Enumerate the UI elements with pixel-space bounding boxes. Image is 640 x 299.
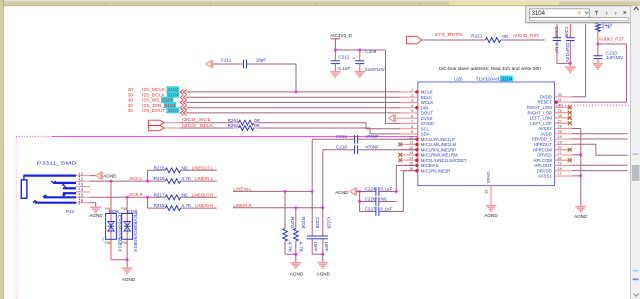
pin 31 RESET <box>555 101 573 103</box>
ground jack pin6 <box>90 207 101 213</box>
wire rail down to IOVDD pin7 <box>385 50 387 123</box>
svg-text:C224: C224 <box>365 186 376 191</box>
svg-text:DOUT: DOUT <box>421 111 434 116</box>
capacitor C224 plates <box>376 187 379 196</box>
wire ED bottoms join <box>111 259 127 261</box>
jack pin 3 stub <box>76 186 90 188</box>
pin 27 LEFT_LOP <box>555 122 573 124</box>
wire LINEIN-L to C216 <box>311 139 313 191</box>
wire LINEIN-R right segment <box>233 207 323 209</box>
svg-text:AGND: AGND <box>484 213 498 218</box>
svg-text:FW: FW <box>105 207 111 211</box>
search highlight on I2S_BCLK_3104 <box>167 92 179 98</box>
svg-text:NC: NC <box>182 165 189 170</box>
pin 24 DRVDD_1 <box>555 138 573 140</box>
svg-text:1uF/10V: 1uF/10V <box>606 55 624 60</box>
wire C211 to MCLK <box>247 63 297 65</box>
svg-text:470NF: 470NF <box>365 134 379 139</box>
svg-text:I2C0_SCL: I2C0_SCL <box>182 117 212 122</box>
off-page connector chevron I2S_WS_3104 <box>180 100 186 105</box>
svg-text:MICBIAS: MICBIAS <box>421 163 439 168</box>
junction C216/C228 <box>311 190 314 193</box>
wire DVDD pin32 <box>572 96 586 98</box>
wire LINEIN-R to C218 <box>322 150 324 208</box>
svg-text:›: › <box>615 10 617 17</box>
junction R218 branch <box>146 196 149 199</box>
svg-text:MIC2R/LINE2R: MIC2R/LINE2R <box>421 168 451 173</box>
wire SYS_RSTN <box>422 39 486 41</box>
pin 3 WCLK <box>400 101 418 103</box>
ground under C210 <box>593 64 604 70</box>
pin 4 DIN <box>400 107 418 109</box>
capacitor C212 <box>334 50 336 61</box>
capacitor C208 <box>569 24 571 38</box>
resistor R221 <box>485 38 500 43</box>
svg-text:9: 9 <box>411 130 413 134</box>
wire LINEIN-L right segment <box>233 190 312 192</box>
svg-text:SYS_RSTN: SYS_RSTN <box>435 32 462 37</box>
svg-text:17: 17 <box>558 172 562 176</box>
no-connect X pin 29 <box>555 112 568 114</box>
wire AUDIO_RST left segment <box>501 39 545 41</box>
svg-text:HPRCOM: HPRCOM <box>533 147 553 152</box>
pin 9 SDA <box>400 133 418 135</box>
svg-text:+: + <box>353 56 356 61</box>
svg-text:470NF: 470NF <box>365 145 379 150</box>
svg-text:LINEOUT-L: LINEOUT-L <box>192 165 214 170</box>
svg-text:AGND: AGND <box>574 214 588 219</box>
wire left rail C224-C227 <box>356 191 359 193</box>
capacitor C210 plates <box>593 56 602 59</box>
wire power rail <box>335 49 385 51</box>
wire R218 branch <box>147 197 149 208</box>
svg-text:TEVB3R0V6SB1X: TEVB3R0V6SB1X <box>133 212 138 252</box>
svg-text:I2S_MCLK_3104: I2S_MCLK_3104 <box>142 87 179 92</box>
svg-text:4.7K: 4.7K <box>602 24 612 29</box>
svg-text:6: 6 <box>411 114 413 118</box>
wire JACK-L <box>90 180 165 182</box>
svg-text:DRVDD_1: DRVDD_1 <box>532 137 553 142</box>
wire AVSS1 pin17 <box>572 175 581 177</box>
ground under C209 <box>354 72 365 78</box>
search highlight on I2S_DOUT_3104 <box>167 107 179 113</box>
pin 22 HPRCOM <box>555 149 573 151</box>
capacitor C207 <box>556 24 558 38</box>
svg-text:R216: R216 <box>154 176 165 181</box>
svg-text:8: 8 <box>411 125 413 129</box>
search highlight on I2S_DIN_3104 <box>164 102 176 108</box>
svg-text:C208: C208 <box>564 27 569 38</box>
svg-text:HPLOUT: HPLOUT <box>534 163 552 168</box>
wire MICBIAS pin15 <box>395 165 397 191</box>
no-connect X pin 11 <box>398 142 402 146</box>
svg-text:4.7K: 4.7K <box>298 242 303 254</box>
wire MIC2R pin16 <box>402 171 404 212</box>
pin 15 MICBIAS <box>400 164 418 166</box>
junction ED6 <box>126 196 129 199</box>
svg-text:AVDD: AVDD <box>540 131 552 136</box>
AGND arrow at C224 <box>350 188 357 196</box>
svg-text:AGND: AGND <box>103 174 117 179</box>
wire SCL <box>180 122 233 124</box>
pin 28 LEFT_LOM <box>555 117 573 119</box>
svg-text:24: 24 <box>558 135 562 139</box>
capacitor C216 <box>355 135 358 144</box>
svg-text:I2C-bus slave address: read 31: I2C-bus slave address: read 31h and writ… <box>439 66 541 71</box>
svg-text:TEVB3R0V6SB1X: TEVB3R0V6SB1X <box>117 212 122 252</box>
capacitor C212 plates <box>331 61 340 64</box>
svg-text:R261: R261 <box>228 118 239 123</box>
junction ED gnd <box>126 258 129 261</box>
capacitor C209 <box>359 50 361 61</box>
wire I2S line I2S_MCLK_3104 <box>186 91 400 93</box>
svg-text:C209: C209 <box>365 49 376 54</box>
wire AVSS2 pin26 to ground rail <box>572 128 581 130</box>
capacitor C218 <box>355 145 358 154</box>
svg-text:18pF: 18pF <box>256 58 267 63</box>
svg-text:R204: R204 <box>301 217 306 229</box>
svg-text:11: 11 <box>409 141 413 145</box>
wire AUDIO_RST to RESET pin31 <box>598 43 627 45</box>
pin 18 DRVDD <box>555 170 573 172</box>
svg-text:LINEIN-R: LINEIN-R <box>233 203 252 208</box>
svg-text:1: 1 <box>411 88 413 92</box>
top bar thumb <box>449 1 559 5</box>
no-connect X pin 14 <box>398 158 402 162</box>
svg-text:AGND: AGND <box>290 272 304 277</box>
svg-text:×: × <box>623 10 627 17</box>
svg-text:DRVDD: DRVDD <box>537 168 552 173</box>
wire AVDD pin25 <box>572 133 628 135</box>
pin 11 MIC1LM/LINE1LM <box>400 143 418 145</box>
pin 16 MIC2R/LINE2R <box>400 170 418 172</box>
pin 14 MIC2L/LINE2L/MICDET <box>400 159 418 161</box>
svg-text:PJ2: PJ2 <box>66 209 74 214</box>
ground ED5 ED6 <box>122 268 133 274</box>
capacitor C211 <box>244 60 247 69</box>
svg-text:AGND: AGND <box>317 272 331 277</box>
svg-text:C212: C212 <box>338 54 349 59</box>
right scrollbar <box>629 6 632 299</box>
pin 6 DVSS <box>400 117 418 119</box>
svg-text:30: 30 <box>128 108 134 113</box>
svg-text:JACK-L: JACK-L <box>129 176 143 181</box>
svg-text:LINEIN-L: LINEIN-L <box>233 187 252 192</box>
svg-text:LEFT_LOP: LEFT_LOP <box>530 121 552 126</box>
wire DRVDD pin18 <box>572 170 628 172</box>
jack pin 6 stub <box>76 202 90 204</box>
svg-text:15PF: 15PF <box>313 242 318 252</box>
junction on MCLK <box>295 91 298 94</box>
capacitor C229 plates <box>318 236 328 239</box>
resistor R261 <box>239 120 254 125</box>
svg-text:R221: R221 <box>471 34 482 39</box>
scrollbar search marks <box>633 153 639 155</box>
svg-text:R203: R203 <box>290 217 295 229</box>
search highlight on I2S_MCLK_3104 <box>167 86 179 92</box>
svg-text:AVSS1: AVSS1 <box>538 174 552 179</box>
svg-text:×: × <box>578 10 582 17</box>
svg-text:3: 3 <box>411 99 413 103</box>
svg-text:LEFT_LOM: LEFT_LOM <box>530 116 553 121</box>
jack pin 1 stub <box>76 175 90 177</box>
ground under C212 <box>330 72 341 78</box>
svg-text:26: 26 <box>558 125 562 129</box>
AGND arrow at C211 <box>206 60 213 68</box>
wire HPROUT pin23 <box>572 143 596 145</box>
svg-text:25: 25 <box>558 130 562 134</box>
pin 7 IOVDD <box>400 122 418 124</box>
capacitor C226 <box>360 201 376 203</box>
svg-text:IOVDD: IOVDD <box>421 121 435 126</box>
pin 10 MIC1LP/LINE1LP <box>400 138 418 140</box>
pin 8 SCL <box>400 128 418 130</box>
svg-text:I2S_WS_3104: I2S_WS_3104 <box>142 98 173 103</box>
svg-text:SDA: SDA <box>421 132 430 137</box>
pin 19 HPLOUT <box>555 165 573 167</box>
capacitor C227 plates <box>376 207 379 216</box>
svg-text:NC: NC <box>381 196 388 201</box>
svg-text:R218: R218 <box>154 203 165 208</box>
capacitor C209 plates <box>355 61 364 64</box>
off-page connector chevron I2S_MCLK_3104 <box>180 90 186 95</box>
wire jack pin6 to ground <box>90 202 96 204</box>
resistor R217 <box>165 195 180 200</box>
svg-text:C218: C218 <box>336 145 347 150</box>
pin 23 HPROUT <box>555 143 573 145</box>
wire HPLOUT pin19 <box>572 164 628 166</box>
svg-text:C228: C228 <box>315 217 320 229</box>
no-connect X pin 30 <box>555 106 568 108</box>
port SYS_RSTN <box>407 36 422 44</box>
junction DRVSS <box>579 153 582 156</box>
svg-text:MCLK: MCLK <box>421 90 433 95</box>
junction C gnd <box>321 253 324 256</box>
pin 29 RIGHT_LOP <box>555 112 573 114</box>
jack pin 4 stub <box>76 191 90 193</box>
pin 33 EPAD <box>490 186 492 205</box>
svg-text:EPAD: EPAD <box>486 172 491 183</box>
svg-text:R215: R215 <box>154 165 165 170</box>
junction R gnd <box>294 253 297 256</box>
wire R203 R204 gnd <box>285 253 296 255</box>
svg-text:15PF: 15PF <box>324 242 329 252</box>
svg-text:33: 33 <box>485 190 489 194</box>
svg-text:AIC3V3_D: AIC3V3_D <box>330 33 352 38</box>
svg-text:C211: C211 <box>221 58 232 63</box>
resistor R203 <box>284 191 286 228</box>
magenta region boundary top edge <box>16 136 52 138</box>
svg-text:JACK-R: JACK-R <box>129 192 143 197</box>
svg-text:NC: NC <box>182 192 189 197</box>
junction R203 <box>284 190 287 193</box>
no-connect X pin 22 <box>555 149 568 151</box>
svg-text:C207: C207 <box>554 27 559 38</box>
pin 13 MIC1RM/LINE1RM <box>400 154 418 156</box>
TVS diode ED5 <box>106 214 117 240</box>
svg-text:22uF/10V: 22uF/10V <box>565 43 570 64</box>
no-connect X pin 20 <box>555 159 568 161</box>
capacitor C228 <box>311 191 313 236</box>
svg-text:23: 23 <box>558 141 562 145</box>
svg-text:HPLCOM: HPLCOM <box>533 158 552 163</box>
resistor R203 zigzag <box>283 229 288 242</box>
svg-text:AGND: AGND <box>335 190 349 195</box>
svg-text:FW: FW <box>121 207 127 211</box>
wire ED5 lead <box>110 181 112 260</box>
wire ED6 lead <box>126 197 128 259</box>
svg-text:AGND: AGND <box>122 277 136 282</box>
capacitor C224 <box>360 191 376 193</box>
svg-text:5: 5 <box>411 109 413 113</box>
resistor 4.7K pullup <box>596 23 601 32</box>
svg-text:13: 13 <box>409 151 413 155</box>
svg-text:2: 2 <box>411 93 413 97</box>
svg-text:19: 19 <box>558 162 562 166</box>
AGND arrow at DVSS pin 6 <box>389 114 396 122</box>
svg-text:C226: C226 <box>365 196 376 201</box>
svg-text:0.1uF: 0.1uF <box>381 206 393 211</box>
junction C218/C229 <box>321 206 324 209</box>
pin 20 HPLCOM <box>555 159 573 161</box>
pin 30 RIGHT_LOM <box>555 106 573 108</box>
svg-text:DVDD: DVDD <box>540 94 552 99</box>
no-connect X pin 28 <box>555 117 568 119</box>
pin 2 BCLK <box>400 96 418 98</box>
port I2C0 <box>148 120 164 131</box>
pin junction dots <box>415 90 418 93</box>
ground EPAD <box>486 206 497 212</box>
wire C207 C208 to ground <box>556 41 558 64</box>
svg-text:AGND: AGND <box>89 213 103 218</box>
capacitor C226 plates <box>376 197 379 206</box>
svg-text:TLV320AIC3104: TLV320AIC3104 <box>476 76 513 81</box>
svg-text:U26: U26 <box>454 76 463 81</box>
svg-text:I2S_DOUT_3104: I2S_DOUT_3104 <box>142 108 179 113</box>
svg-text:4: 4 <box>411 104 413 108</box>
svg-text:30: 30 <box>128 98 134 103</box>
junction C207/C208 gnd <box>569 62 572 65</box>
resistor R218 <box>165 206 180 211</box>
wire DRVSS pin21 <box>572 154 581 156</box>
svg-text:PJ311_SMD: PJ311_SMD <box>37 160 78 165</box>
svg-text:‹: ‹ <box>606 10 608 17</box>
wire JACK-R <box>90 196 165 198</box>
svg-text:HPROUT: HPROUT <box>534 142 553 147</box>
svg-text:LINEIN-R: LINEIN-R <box>195 203 214 208</box>
capacitor C228 plates <box>307 236 317 239</box>
wire C228 C229 gnd <box>312 253 323 255</box>
wire R215 branch <box>147 170 149 181</box>
TVS diode ED6 <box>122 214 133 240</box>
pin 5 DOUT <box>400 112 418 114</box>
svg-text:LINEOUT-R: LINEOUT-R <box>192 192 214 197</box>
svg-text:0R: 0R <box>502 34 509 39</box>
svg-text:32: 32 <box>558 93 562 97</box>
junction R204 <box>294 206 297 209</box>
svg-text:0.1uF: 0.1uF <box>381 186 393 191</box>
svg-text:4.7K: 4.7K <box>182 203 192 208</box>
resistor R204 zigzag <box>294 229 299 242</box>
search input <box>529 9 589 17</box>
capacitor C227 <box>360 211 376 213</box>
off-page connector chevron I2S_DIN_3104 <box>180 105 186 110</box>
power symbol AIC3V3_D <box>331 39 341 50</box>
svg-text:3104: 3104 <box>532 11 546 17</box>
pin 12 MIC1RP/LINE1RP <box>400 149 418 151</box>
search highlight on I2S_WS_3104 <box>161 97 173 103</box>
svg-text:31: 31 <box>558 98 562 102</box>
svg-text:RIGHT_LOM: RIGHT_LOM <box>527 105 552 110</box>
capacitor C210 <box>597 44 599 56</box>
pin 21 DRVSS <box>555 154 573 156</box>
junction AVSS1 <box>579 175 582 178</box>
search toolbar panel <box>526 6 632 23</box>
svg-text:WCLK: WCLK <box>421 100 434 105</box>
svg-text:4.7K: 4.7K <box>182 176 192 181</box>
pin 25 AVDD <box>555 133 573 135</box>
window chrome: top scrollbar bar <box>0 0 640 1</box>
pin 32 DVDD <box>555 96 573 98</box>
wire I2S line I2S_DOUT_3104 <box>186 112 400 114</box>
scrollbar thumb <box>632 165 640 181</box>
svg-text:2: 2 <box>102 238 104 242</box>
jack pin 2 stub <box>76 180 90 182</box>
no-connect X pin 27 <box>555 122 568 124</box>
pin 1 MCLK <box>400 91 418 93</box>
AGND arrow jack pin1 <box>96 172 103 180</box>
svg-text:AUDIO_RST: AUDIO_RST <box>599 37 624 42</box>
svg-text:21: 21 <box>558 151 562 155</box>
svg-text:14: 14 <box>409 156 413 160</box>
wire I2S line I2S_BCLK_3104 <box>186 96 400 98</box>
resistor R262 <box>239 126 254 131</box>
svg-text:4.7K: 4.7K <box>288 242 293 254</box>
svg-text:C229: C229 <box>326 217 331 229</box>
toolbar buttons <box>595 11 599 16</box>
svg-text:RESET: RESET <box>537 100 552 105</box>
svg-text:MIC1RM/LINE1RM: MIC1RM/LINE1RM <box>421 153 458 158</box>
no-connect X pin 13 <box>398 153 402 157</box>
svg-text:18: 18 <box>558 167 562 171</box>
resistor R204 <box>295 208 297 229</box>
jack body <box>21 176 76 203</box>
resistor R215 <box>165 168 180 173</box>
svg-text:R217: R217 <box>154 192 165 197</box>
capacitor C208 plates <box>566 38 574 41</box>
svg-text:7: 7 <box>411 120 413 124</box>
capacitor C207 plates <box>553 38 561 41</box>
search progress strip <box>529 18 629 21</box>
wire pullup to AUDIO_RST node <box>597 32 599 45</box>
svg-text:C227: C227 <box>365 206 376 211</box>
svg-text:0.1uF: 0.1uF <box>338 66 350 71</box>
junction R215 branch <box>146 180 149 183</box>
search highlight on IC value <box>500 76 513 82</box>
wire I2S line I2S_DIN_3104 <box>186 107 400 109</box>
pin 17 AVSS1 <box>555 175 573 177</box>
svg-text:LINEIN-L: LINEIN-L <box>195 176 214 181</box>
wire I2S line I2S_WS_3104 <box>186 101 400 103</box>
svg-text:I2C0_SDA: I2C0_SDA <box>182 123 214 128</box>
wire C211 left <box>213 63 244 65</box>
magenta dotted left edge <box>15 137 17 299</box>
jack pin 5 stub <box>76 196 90 198</box>
wire DRVDD_1 pin24 <box>572 138 628 140</box>
wire jack pin1 to AGND <box>90 175 95 177</box>
resistor R216 <box>165 179 180 184</box>
svg-text:AVSS2: AVSS2 <box>538 126 552 131</box>
